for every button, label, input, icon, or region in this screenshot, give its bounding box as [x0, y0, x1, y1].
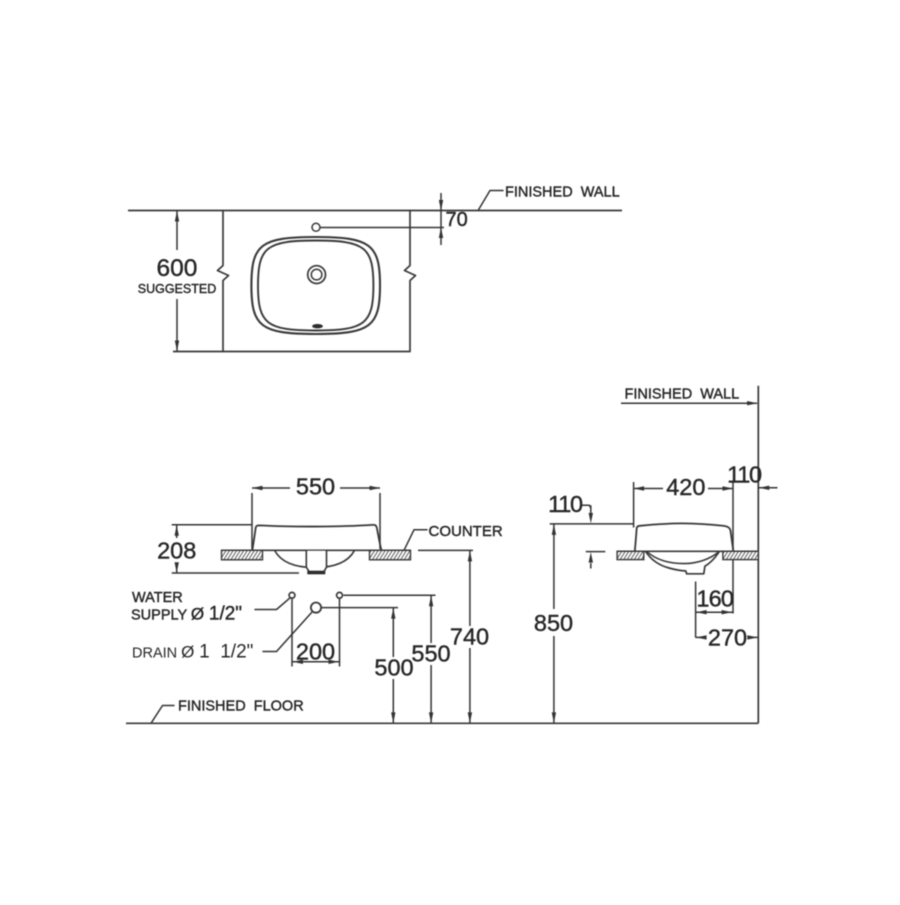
svg-text:740: 740 [450, 624, 489, 650]
svg-text:70: 70 [446, 209, 468, 231]
svg-text:SUPPLY Ø 1/2": SUPPLY Ø 1/2" [131, 604, 242, 625]
svg-text:550: 550 [411, 641, 450, 667]
svg-text:FINISHED WALL: FINISHED WALL [505, 185, 620, 201]
svg-text:FINISHED FLOOR: FINISHED FLOOR [178, 699, 304, 715]
svg-text:200: 200 [296, 639, 335, 665]
svg-text:208: 208 [157, 538, 196, 564]
svg-text:110: 110 [548, 491, 583, 517]
svg-text:850: 850 [534, 610, 573, 636]
svg-text:500: 500 [374, 655, 413, 681]
svg-text:110: 110 [727, 462, 762, 488]
svg-text:550: 550 [296, 474, 335, 500]
svg-text:SUGGESTED: SUGGESTED [138, 282, 217, 296]
svg-text:FINISHED WALL: FINISHED WALL [625, 387, 740, 403]
svg-text:420: 420 [666, 474, 705, 500]
svg-text:600: 600 [157, 255, 198, 282]
svg-text:DRAIN Ø 1 1/2": DRAIN Ø 1 1/2" [132, 642, 253, 663]
svg-text:COUNTER: COUNTER [429, 523, 503, 540]
svg-text:270: 270 [708, 625, 747, 651]
svg-text:WATER: WATER [132, 590, 183, 606]
svg-text:160: 160 [696, 586, 734, 612]
